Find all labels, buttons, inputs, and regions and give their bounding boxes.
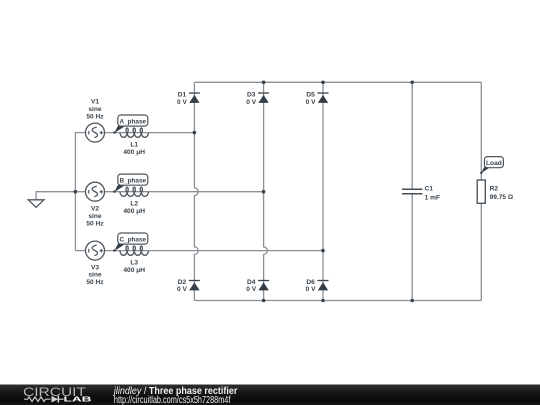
net flag Load xyxy=(480,157,503,174)
resistor R2 xyxy=(477,180,514,203)
wire: diode column 3 xyxy=(322,82,324,300)
svg-text:D3: D3 xyxy=(247,91,256,98)
svg-text:B_phase: B_phase xyxy=(120,178,147,185)
node: bottom rail column 3 xyxy=(321,299,325,303)
svg-text:D5: D5 xyxy=(306,91,315,98)
svg-text:400 μH: 400 μH xyxy=(123,208,145,215)
capacitor C1 xyxy=(402,186,440,202)
logo diode xyxy=(52,396,59,403)
svg-text:C_phase: C_phase xyxy=(120,236,147,243)
footer bar xyxy=(0,385,540,405)
wire: capacitor column xyxy=(411,82,413,189)
svg-text:http://circuitlab.com/cs5x5h72: http://circuitlab.com/cs5x5h7288m4f xyxy=(114,395,231,405)
voltage source V2 xyxy=(86,182,105,227)
node: bus-ground junction xyxy=(74,190,78,194)
node: bottom rail capacitor xyxy=(410,299,414,303)
svg-text:LAB: LAB xyxy=(64,395,92,404)
svg-text:sine: sine xyxy=(88,213,102,220)
node: top rail column 2 xyxy=(262,81,266,85)
inductor L1 xyxy=(120,128,148,156)
svg-text:D6: D6 xyxy=(306,279,315,286)
svg-text:400 μH: 400 μH xyxy=(123,149,145,156)
wire: C phase line xyxy=(105,250,324,252)
svg-text:0 V: 0 V xyxy=(306,99,316,106)
wire: diode column 1 with hops over B and C phases xyxy=(194,82,198,300)
inductor L2 xyxy=(120,187,148,215)
svg-text:50 Hz: 50 Hz xyxy=(86,220,104,227)
svg-text:0 V: 0 V xyxy=(246,99,256,106)
diode D1 xyxy=(177,91,200,106)
svg-text:R2: R2 xyxy=(490,185,499,192)
wire: source bus vertical xyxy=(74,133,76,251)
svg-text:V3: V3 xyxy=(91,264,99,271)
wire: source stubs xyxy=(75,132,85,134)
svg-text:50 Hz: 50 Hz xyxy=(86,114,104,121)
svg-text:1 mF: 1 mF xyxy=(425,194,440,201)
node: top rail capacitor xyxy=(410,81,414,85)
diode D3 xyxy=(246,91,269,106)
diode D5 xyxy=(306,91,329,106)
logo resistor zigzag xyxy=(24,397,51,402)
svg-text:D2: D2 xyxy=(178,279,187,286)
node: A phase to column 1 xyxy=(193,131,197,135)
wire: diode column 2 with hop over C phase xyxy=(264,82,268,300)
svg-text:400 μH: 400 μH xyxy=(123,267,145,274)
wire: B phase line xyxy=(105,191,264,193)
ground xyxy=(28,200,44,208)
diode D2 xyxy=(177,279,200,293)
svg-text:sine: sine xyxy=(88,272,102,279)
wire: resistor column xyxy=(480,82,482,180)
node: C phase to column 3 xyxy=(321,249,325,253)
svg-text:C1: C1 xyxy=(425,186,434,193)
svg-text:sine: sine xyxy=(88,106,102,113)
wire: top rail xyxy=(194,81,481,83)
wire: ground branch xyxy=(36,192,75,200)
svg-text:D4: D4 xyxy=(247,279,256,286)
diode D4 xyxy=(246,279,269,293)
svg-text:50 Hz: 50 Hz xyxy=(86,279,104,286)
inductor L3 xyxy=(120,246,148,274)
net flag C_phase xyxy=(113,233,148,252)
svg-text:V1: V1 xyxy=(91,99,99,106)
node: B phase to column 2 xyxy=(262,190,266,194)
svg-text:99.75 Ω: 99.75 Ω xyxy=(490,194,514,201)
svg-text:0 V: 0 V xyxy=(246,286,256,293)
voltage source V3 xyxy=(86,241,105,286)
wire: A phase line xyxy=(105,132,195,134)
svg-text:0 V: 0 V xyxy=(306,286,316,293)
svg-text:L3: L3 xyxy=(130,259,138,266)
node: bottom rail column 2 xyxy=(262,299,266,303)
svg-text:A_phase: A_phase xyxy=(120,118,147,125)
node: top rail column 3 xyxy=(321,81,325,85)
svg-text:L2: L2 xyxy=(130,201,138,208)
diode D6 xyxy=(306,279,329,293)
wire: bottom rail xyxy=(194,300,481,302)
svg-text:0 V: 0 V xyxy=(177,286,187,293)
svg-text:D1: D1 xyxy=(178,91,187,98)
svg-text:0 V: 0 V xyxy=(177,99,187,106)
net flag A_phase xyxy=(113,115,148,134)
voltage source V1 xyxy=(86,99,105,143)
net flag B_phase xyxy=(113,174,148,193)
svg-text:V2: V2 xyxy=(91,206,99,213)
svg-text:L1: L1 xyxy=(130,141,138,148)
svg-text:Load: Load xyxy=(486,160,502,167)
